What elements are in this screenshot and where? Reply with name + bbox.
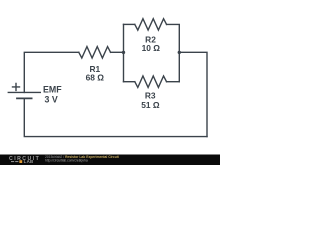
- wire R3 branch left lead: [124, 81, 135, 83]
- battery V1 long plate: [8, 91, 40, 93]
- svg-text:EMF: EMF: [43, 85, 62, 95]
- resistor R3: [135, 76, 167, 87]
- battery plus sign: [13, 83, 20, 90]
- svg-text:3 V: 3 V: [45, 94, 58, 104]
- wire node B to right rail: [179, 52, 207, 136]
- wire top-left: corner to R1: [24, 52, 79, 92]
- wire R1 to node A: [111, 51, 124, 53]
- wire R2 branch left lead: [124, 23, 135, 25]
- battery V1 short plate: [17, 97, 32, 99]
- svg-text:51 Ω: 51 Ω: [141, 100, 160, 110]
- svg-text:10 Ω: 10 Ω: [142, 43, 161, 53]
- resistor R2: [135, 19, 167, 30]
- svg-text:68 Ω: 68 Ω: [86, 72, 105, 82]
- wire R2 branch right lead: [167, 24, 180, 81]
- CircuitLab logo LAB row: [11, 159, 34, 164]
- svg-text:http://circuitlab.com/c/e8qvha: http://circuitlab.com/c/e8qvha: [45, 159, 88, 163]
- node B junction dot: [178, 51, 181, 54]
- wire bottom rail: [24, 98, 207, 136]
- node A junction dot: [122, 51, 125, 54]
- svg-text:LAB: LAB: [24, 159, 34, 164]
- resistor R1: [79, 47, 111, 58]
- footer bar: [0, 155, 220, 166]
- wire R3 branch right lead: [167, 81, 180, 83]
- wire node A vertical branch: [123, 24, 125, 81]
